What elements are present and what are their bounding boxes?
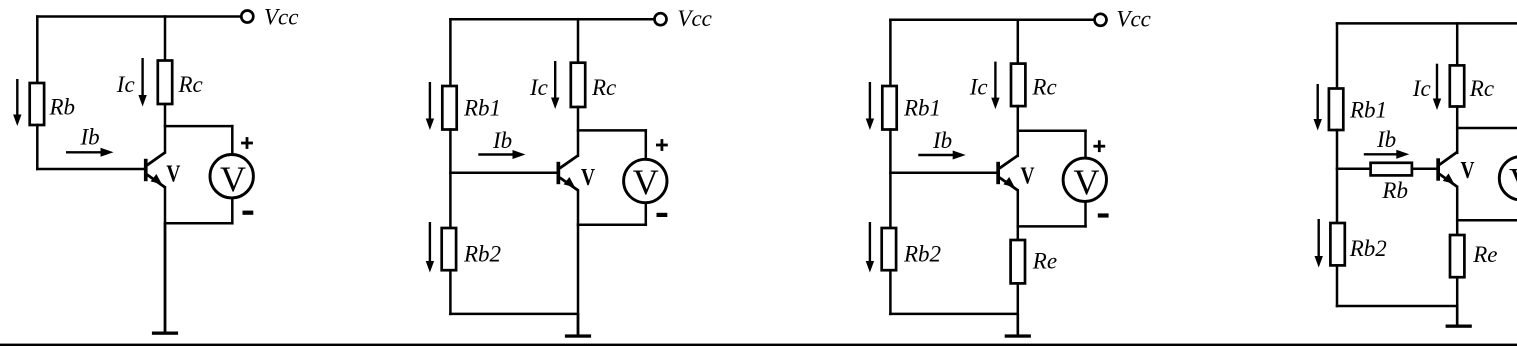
wire C1 voltmeter top: [165, 125, 232, 128]
wire C2 base: [450, 171, 556, 174]
wire C2 voltmeter drop bottom: [645, 203, 648, 225]
ground C2: [565, 314, 591, 338]
wire C3 left rail middle: [889, 130, 892, 229]
svg-text:Ib: Ib: [492, 128, 512, 153]
svg-text:Vcc: Vcc: [677, 6, 711, 31]
wire C4 top rail: [1337, 22, 1517, 25]
wire C3 collector rail upper: [1017, 20, 1020, 64]
transistor Q2 emitter arrow: [564, 177, 575, 187]
transistor Q2 base bar: [557, 162, 561, 184]
wire C2 left rail lower: [449, 270, 452, 314]
current arrow through Rb2 C3: [866, 222, 874, 273]
wire C1 emitter rail: [164, 187, 167, 331]
transistor Q3 base bar: [996, 162, 1000, 184]
wire C3 voltmeter drop top: [1084, 131, 1087, 159]
wire C4 voltmeter top: [1457, 127, 1517, 130]
voltmeter V3: [1063, 158, 1106, 202]
svg-text:Rb2: Rb2: [463, 241, 501, 266]
wire C4 left rail upper: [1336, 23, 1339, 88]
current arrow Ib C1: [66, 148, 114, 157]
wire C2 left rail upper: [449, 19, 452, 86]
resistor Rc C1: [158, 61, 172, 105]
svg-text:V: V: [1074, 162, 1100, 202]
page bottom border: [0, 344, 1517, 346]
wire C1 voltmeter drop bottom: [231, 198, 234, 223]
wire C2 voltmeter bottom: [578, 224, 646, 227]
wire C3 base: [890, 171, 996, 174]
wire C1 base: [37, 168, 144, 171]
resistor Rc C4: [1450, 65, 1464, 106]
wire C3 top rail: [890, 19, 1093, 22]
terminal Vcc C3: [1095, 14, 1107, 26]
resistor Rb C4: [1371, 163, 1412, 176]
resistor Rb2 C3: [882, 228, 896, 270]
transistor Q1 base bar: [144, 159, 148, 181]
svg-text:Rc: Rc: [1469, 76, 1494, 101]
wire C1 left rail upper: [36, 17, 39, 84]
wire C1 collector rail lower: [164, 104, 167, 153]
wire C2 top rail: [450, 18, 653, 21]
transistor Q1 emitter arrow: [151, 174, 162, 184]
svg-text:Vcc: Vcc: [264, 4, 298, 29]
ground C4: [1446, 306, 1472, 328]
wire C3 voltmeter bottom: [1018, 225, 1086, 228]
current arrow through Rb C1: [13, 79, 21, 126]
current arrow through Rb1 C3: [866, 82, 874, 130]
current arrow through Rb1 C4: [1314, 84, 1322, 131]
wire C4 collector rail lower: [1456, 107, 1459, 153]
wire C4 left rail middle: [1336, 130, 1339, 223]
wire C1 left rail lower: [36, 125, 39, 169]
transistor Q4 base bar: [1436, 158, 1440, 180]
minus sign C1: [243, 211, 254, 215]
voltmeter V1: [210, 155, 253, 199]
wire C3 voltmeter drop bottom: [1084, 202, 1087, 226]
wire C2 left rail middle: [449, 130, 452, 229]
svg-text:V: V: [1509, 161, 1517, 201]
transistor Q4 emitter stroke: [1439, 174, 1457, 187]
svg-text:Ib: Ib: [932, 128, 952, 153]
svg-text:Ic: Ic: [1412, 76, 1431, 101]
transistor Q1 collector stroke: [147, 153, 165, 166]
wire C1 collector rail upper: [164, 17, 167, 61]
transistor Q3 collector stroke: [999, 156, 1017, 169]
terminal Vcc C1: [241, 11, 253, 23]
wire C3 left rail upper: [889, 20, 892, 86]
svg-text:Rb1: Rb1: [463, 96, 501, 121]
wire C4 voltmeter bottom: [1457, 219, 1517, 222]
svg-text:Ib: Ib: [80, 125, 100, 150]
svg-text:V: V: [1021, 163, 1035, 190]
current arrow Ic C1: [138, 58, 146, 107]
transistor Q3 emitter arrow: [1003, 177, 1014, 187]
plus sign C1: [241, 137, 253, 149]
wire C4 collector rail upper: [1456, 23, 1459, 65]
svg-text:Rb1: Rb1: [903, 96, 941, 121]
svg-text:Re: Re: [1472, 242, 1497, 267]
wire C4 emitter lower: [1456, 277, 1459, 324]
current arrow Ic C2: [551, 61, 559, 109]
wire C4 base left: [1337, 168, 1371, 171]
svg-text:Re: Re: [1032, 249, 1057, 274]
svg-text:Ic: Ic: [529, 75, 548, 100]
svg-text:Rb1: Rb1: [1349, 98, 1387, 123]
terminal Vcc C2: [655, 13, 667, 25]
current arrow through Rb2 C4: [1315, 219, 1323, 268]
transistor Q2 emitter stroke: [560, 178, 578, 191]
current arrow Ic C4: [1433, 64, 1441, 110]
current arrow through Rb2 C2: [426, 222, 434, 273]
wire C4 emitter upper: [1456, 187, 1459, 235]
wire C2 collector rail upper: [577, 19, 580, 63]
resistor Rb2 C2: [442, 228, 456, 270]
svg-text:Vcc: Vcc: [1116, 7, 1150, 32]
wire C2 emitter rail: [577, 190, 580, 334]
wire C2 voltmeter drop top: [645, 130, 648, 159]
svg-text:V: V: [220, 159, 246, 199]
svg-text:Ib: Ib: [1376, 127, 1396, 152]
resistor Re C3: [1011, 240, 1025, 283]
svg-text:V: V: [166, 161, 180, 188]
resistor Rc C3: [1011, 64, 1025, 107]
svg-text:V: V: [1461, 157, 1475, 184]
minus sign C2: [657, 213, 668, 217]
wire C3 left rail lower: [889, 270, 892, 314]
resistor Rb C1: [30, 83, 44, 125]
voltmeter V4 clipped: [1499, 157, 1517, 201]
resistor Rc C2: [571, 63, 585, 107]
svg-text:Rb: Rb: [1381, 178, 1408, 203]
resistor Rb1 C4: [1329, 89, 1343, 131]
current arrow Ib C3: [918, 151, 965, 160]
wire C1 voltmeter bottom: [165, 222, 232, 225]
wire C2 collector rail lower: [577, 107, 580, 156]
wire C1 voltmeter drop top: [231, 126, 234, 155]
current arrow Ic C3: [991, 62, 999, 110]
transistor Q1 emitter stroke: [147, 175, 165, 188]
transistor Q3 emitter stroke: [999, 178, 1017, 191]
transistor Q4 emitter arrow: [1443, 174, 1454, 184]
transistor Q4 collector stroke: [1439, 152, 1457, 165]
transistor Q2 collector stroke: [560, 156, 578, 169]
wire C2 bottom rail: [450, 313, 578, 316]
voltmeter V2: [624, 159, 667, 202]
resistor Rb2 C4: [1330, 223, 1344, 265]
wire C3 voltmeter top: [1018, 129, 1086, 132]
svg-text:Rc: Rc: [591, 75, 616, 100]
wire C3 collector rail lower: [1017, 106, 1020, 156]
resistor Rb1 C2: [442, 86, 456, 130]
wire C1 top rail: [37, 15, 240, 18]
plus sign C2: [656, 139, 668, 151]
wire C4 bottom rail: [1337, 305, 1457, 308]
svg-text:V: V: [581, 164, 595, 191]
svg-text:V: V: [633, 162, 659, 202]
ground C1: [152, 223, 178, 334]
svg-text:Rb2: Rb2: [1349, 236, 1387, 261]
wire C3 bottom rail: [890, 313, 1017, 316]
resistor Re C4: [1450, 235, 1464, 277]
svg-text:Ic: Ic: [969, 74, 988, 99]
ground C3: [1005, 314, 1031, 338]
wire C4 base right: [1412, 168, 1435, 171]
current arrow Ib C2: [478, 150, 525, 159]
svg-text:Rc: Rc: [178, 72, 203, 97]
svg-text:Rc: Rc: [1031, 74, 1056, 99]
current arrow through Rb1 C2: [426, 82, 434, 130]
svg-text:Rb2: Rb2: [903, 241, 941, 266]
wire C4 left rail lower: [1336, 265, 1339, 306]
plus sign C3: [1093, 140, 1105, 152]
current arrow Ib C4: [1364, 150, 1410, 159]
minus sign C3: [1098, 213, 1109, 217]
wire C2 voltmeter top: [578, 129, 646, 132]
wire C3 emitter lower: [1017, 283, 1020, 334]
svg-text:Rb: Rb: [49, 95, 76, 120]
resistor Rb1 C3: [882, 86, 896, 130]
wire C3 emitter upper: [1017, 190, 1020, 240]
svg-text:Ic: Ic: [116, 72, 135, 97]
